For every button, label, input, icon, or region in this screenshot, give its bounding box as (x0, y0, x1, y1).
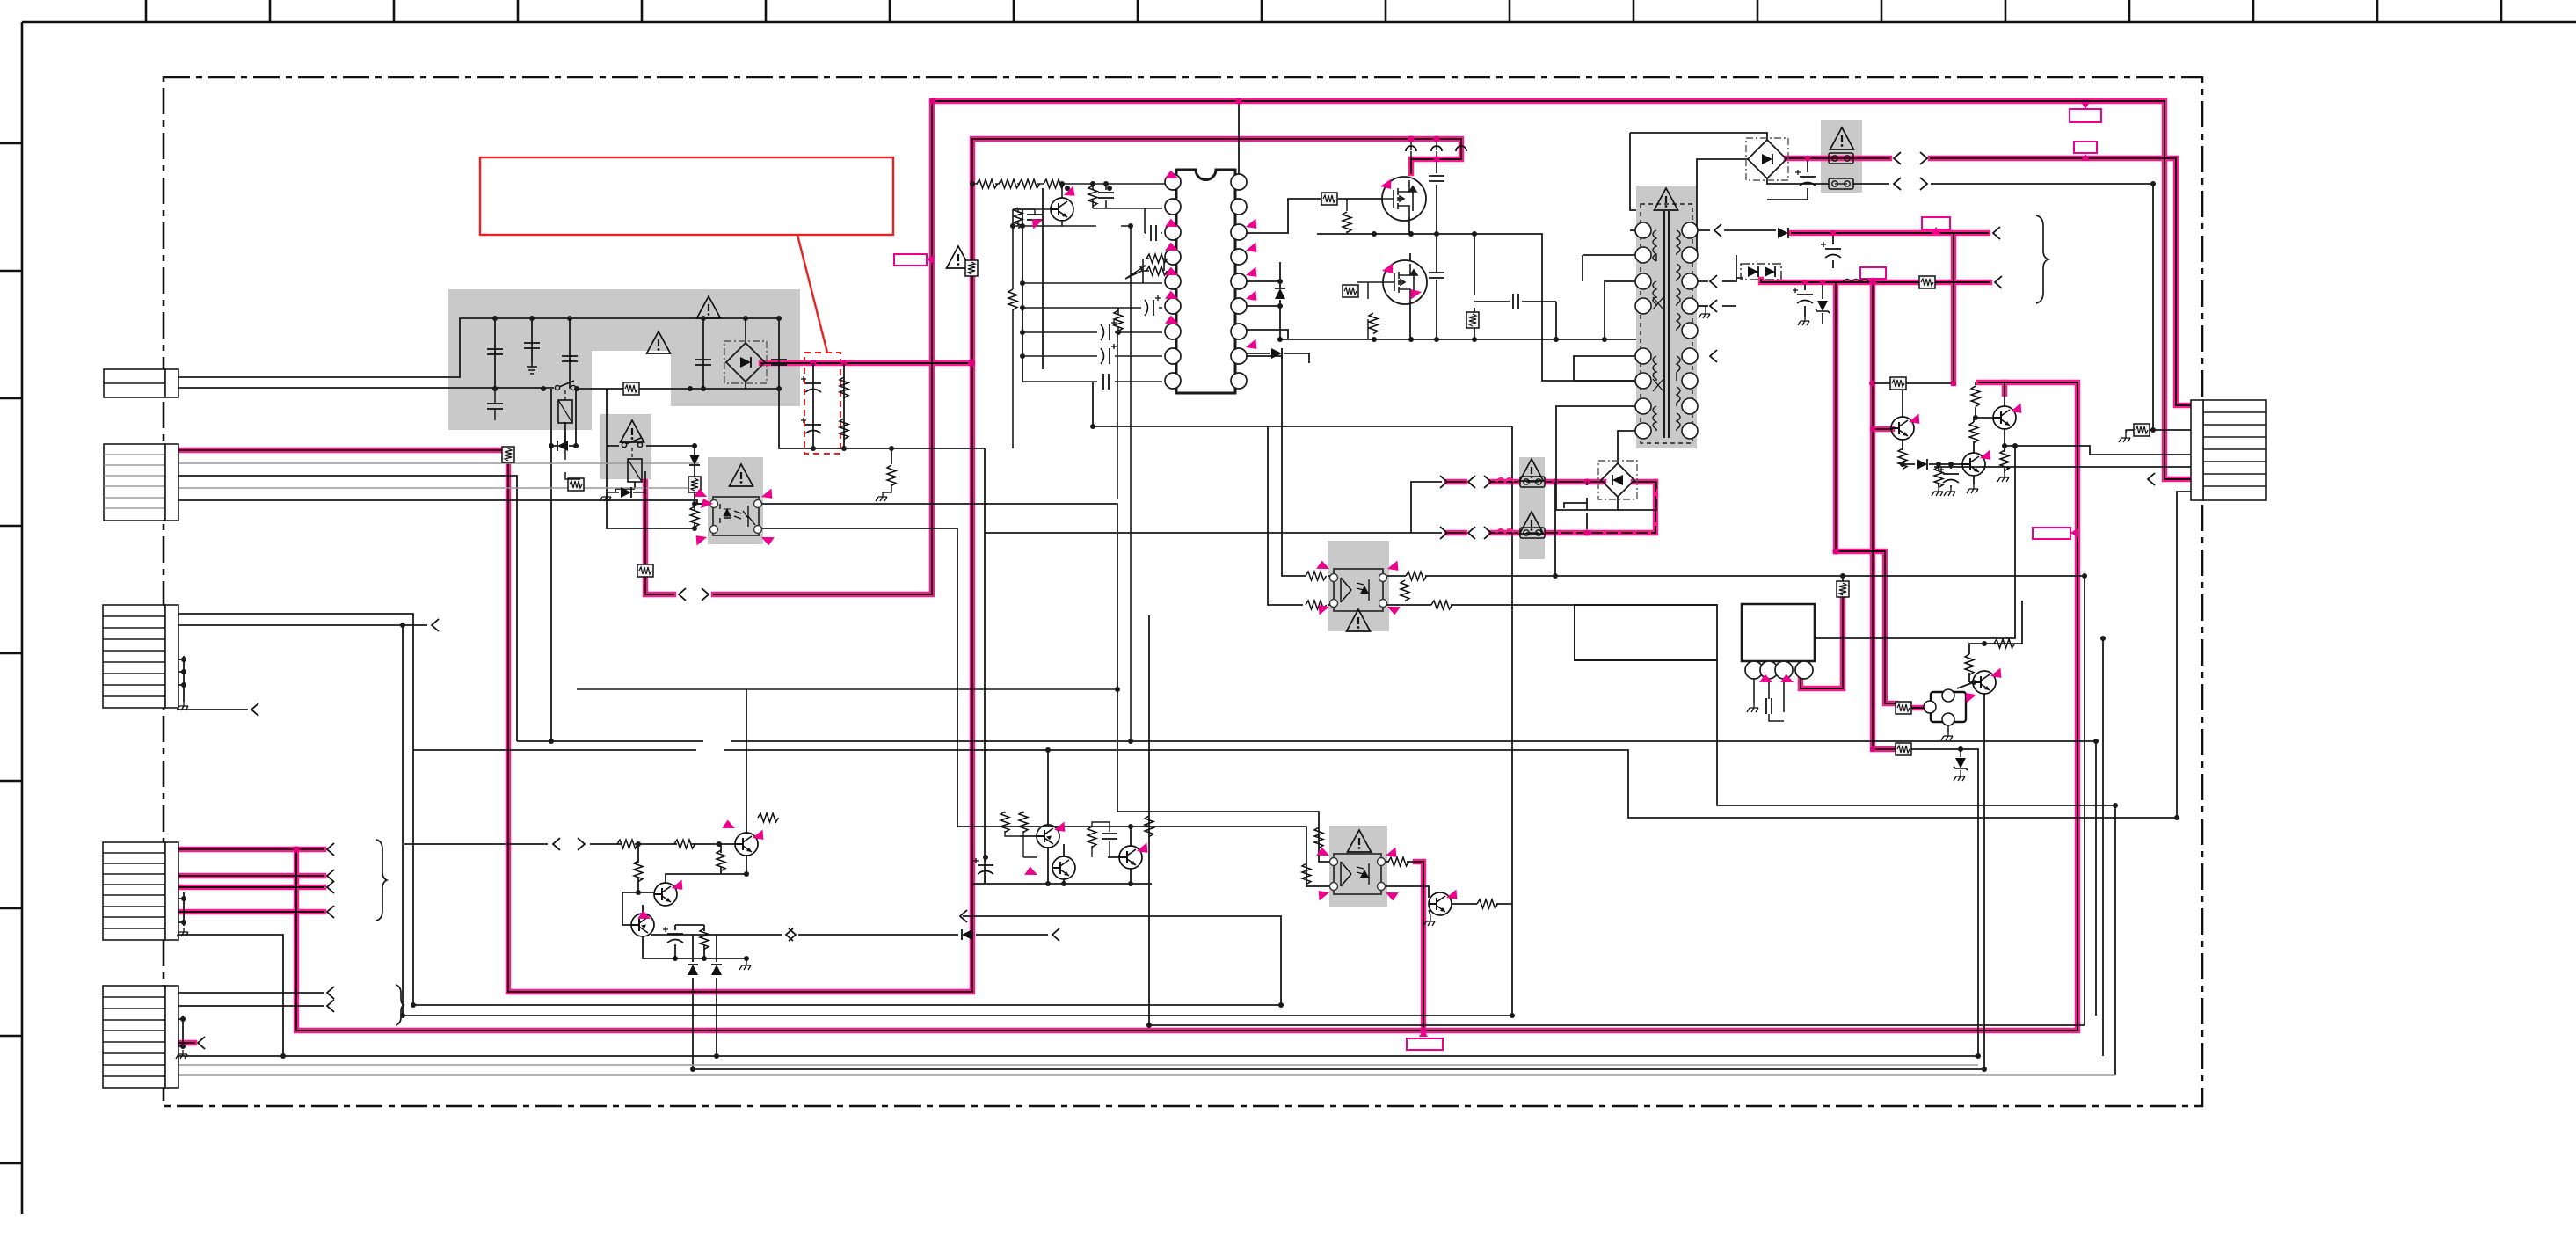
wire: black vertical beside magenta (985, 448, 1442, 884)
middle cluster parts (1001, 812, 1009, 833)
wire: IC pin7R (1239, 330, 1288, 339)
transistor Q22 (1052, 856, 1075, 879)
red dashed box around main caps (804, 353, 840, 454)
top ticks (146, 0, 2501, 22)
secondary windings right (1677, 230, 1680, 431)
connector CN3 (103, 605, 178, 708)
wire: base line bottom-left cluster (404, 843, 736, 845)
transistor Q11 (735, 833, 758, 856)
wire: CN3 row9 stub (178, 709, 248, 710)
wire: reg IC right to transistor col (1815, 446, 2015, 638)
wire: PC1 outputs (178, 500, 1334, 862)
bottom-left cluster parts (617, 840, 638, 848)
red note box (480, 157, 893, 235)
wire: CN5 rows (178, 993, 324, 1006)
wire: zener/caps below M4 between rails (1872, 232, 1874, 234)
transistor Q12 (654, 883, 677, 906)
dots black (180, 98, 2179, 1072)
top border (22, 21, 2576, 24)
wire: S2/RL2 area (607, 389, 711, 528)
gate resistors boxed (1321, 193, 1337, 205)
wire: CN4 bottom row down (178, 935, 283, 1056)
wire: relay RL1 area (551, 389, 576, 741)
wire: BD2 feeds from secondary (1630, 133, 1767, 255)
secondary diode on M4 (1778, 228, 1788, 238)
opto PC2 zone (1328, 541, 1389, 631)
diodes bottom (688, 965, 698, 975)
wire: IC pin8R diode (1239, 353, 1309, 363)
wire: left edge CN1 column riser (164, 369, 166, 397)
transistor Q31 (1891, 417, 1914, 440)
wire: bleeder to ground (891, 448, 892, 464)
wire: IC vcc riser (1238, 101, 1240, 174)
wire: BD2 bottom to fuse2 line (1767, 178, 2153, 430)
wire: gate1 from IC (1239, 199, 1383, 233)
PC2 resistors (1306, 572, 1327, 580)
wire: bridge top/bottom feeds (703, 318, 779, 389)
sense resistors (1466, 312, 1479, 328)
transistor Q33 (1962, 453, 1985, 476)
PC3 resistors (1896, 702, 1911, 714)
wire: cap bank verticals in red box (813, 363, 844, 448)
wire: PC4 out to Q (1381, 862, 1429, 898)
connector CN5 (103, 986, 178, 1088)
wire: heater winding wires to BD3 (1556, 406, 1636, 510)
wire: CN1 row2 through switch S1 to bridge (178, 387, 554, 389)
left ticks (0, 143, 22, 1163)
dual diode box (1741, 264, 1781, 280)
left border (21, 22, 24, 1214)
CN3 grounds (177, 702, 188, 710)
opto PC1 zone (708, 457, 763, 544)
wire: CN3 row2 (178, 625, 427, 1016)
startup chain y=209 (972, 183, 1166, 185)
transistor Q21 (1037, 825, 1059, 848)
wire: PC2 out bottom to regulator (1383, 605, 2115, 805)
core arrows (1653, 297, 1663, 309)
connector CN1 (104, 369, 178, 397)
wire: diodes risers bottom left (693, 935, 717, 1069)
wire: CN1 row1 to input filter (178, 318, 779, 377)
wire: y930 line (413, 750, 2177, 818)
wire: primary return (1574, 281, 1636, 381)
primary danger zone (448, 289, 800, 430)
wire: half-bridge node (1317, 234, 1636, 381)
connector CN2 (104, 444, 178, 521)
caps input filter (487, 349, 503, 354)
wire: rows to CN right (1934, 430, 2191, 1075)
wire: vertical x1720 (1511, 426, 1513, 1016)
wire: IC bottom out (1093, 382, 1512, 605)
wire: CN5 ground bus (178, 1016, 183, 1048)
transistor Q23 (1119, 846, 1142, 869)
wire: right lower area (1910, 601, 2022, 1069)
opto PC3 (small, right) (1924, 689, 1966, 732)
fuse zone top right (1821, 120, 1862, 193)
wire: CN4 ground bus (178, 892, 184, 926)
connector CN6 right (2191, 400, 2266, 500)
wire: source sense bus (1280, 339, 1636, 340)
snubber diodes for relays (557, 441, 568, 451)
main e-caps in red dashed box (801, 376, 821, 392)
transformer zone (1636, 186, 1697, 448)
wire: secondary pin wires with breaks (1697, 230, 1776, 306)
wire: PC2 input side (1328, 576, 1334, 605)
wire: reg rbox riser (1842, 576, 1844, 583)
red pointer line (797, 235, 827, 353)
wire: primary top to transformer (1630, 229, 1636, 231)
wire: y916 line (517, 740, 2096, 742)
wire: caps across half-bridge (1437, 159, 1556, 339)
wire: VCC sense vertical (1239, 356, 1306, 576)
wire: DC minus rail (779, 389, 985, 448)
transistor Q16 (1429, 892, 1452, 915)
primary windings left (1653, 230, 1656, 431)
wire: right Q cluster (1872, 382, 2191, 487)
bleeder (887, 465, 896, 486)
transistor Q34 (1973, 671, 1996, 694)
wire: Q16 collector out (1452, 903, 1512, 905)
PC4 resistors (1302, 863, 1311, 885)
relay2 zone (600, 414, 651, 479)
wire: double diode box feed (1736, 255, 1743, 278)
base/emitter busses (1013, 184, 1131, 226)
fuse zone mid (secondary) (1519, 457, 1545, 559)
transistor Q1 startup (1051, 198, 1073, 221)
wire: middle cluster (963, 750, 1281, 1005)
hats on drain bus (1406, 146, 1416, 151)
wire: bottom-left cluster (622, 689, 746, 961)
pin circles (1635, 222, 1698, 439)
transistor Q32 (1993, 406, 2016, 429)
wire: PC2 out top long rail to right (1383, 576, 2085, 1025)
wire: ecaps on outputs (1805, 233, 1833, 324)
opto PC4 zone (bottom middle) (1329, 826, 1387, 907)
wire: IC pin5R snubber chain (1239, 262, 1280, 339)
IC left-side wiring (972, 184, 1166, 741)
output filter parts (1821, 242, 1841, 258)
transistor Q13 (631, 914, 654, 936)
caps across bridge (1429, 176, 1444, 181)
gray secondary-sheet wires (178, 463, 2115, 1075)
wire: filter column caps (495, 318, 570, 389)
wire: CN3 ground bus (178, 656, 184, 702)
wire: snubber to transformer pin2 (1583, 255, 1636, 281)
connector CN4 (103, 842, 178, 940)
wire: CN3 row1 down-long (178, 614, 413, 1005)
magenta junction dots (293, 98, 1838, 1033)
wire: aux winding wires (1574, 356, 1636, 381)
wire: IC left bus verticals (1022, 188, 1043, 381)
fuse2 resistor (2134, 424, 2150, 436)
wire: bottom bus lines (413, 1004, 1281, 1006)
right cluster resistors (1890, 377, 1906, 390)
wire: ecap on M2 (1767, 158, 1808, 200)
